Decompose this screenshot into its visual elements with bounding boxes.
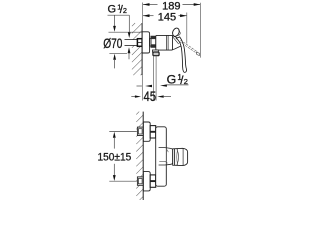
- body front edge over cone: [165, 148, 167, 165]
- dimension 145: [143, 11, 187, 23]
- label G 1/2 (top left, inlet thread): [108, 2, 130, 16]
- wall hatching (lower view): [136, 112, 143, 200]
- wall hatching (upper view): [132, 23, 142, 75]
- svg-text:2: 2: [123, 6, 127, 15]
- lever knob (top view): [171, 27, 181, 38]
- handle knob (front view): [173, 148, 188, 165]
- outlet extension line left: [153, 56, 155, 101]
- O70 bottom extension line (flange bottom): [109, 53, 127, 55]
- phantom lever tip: [196, 52, 199, 55]
- body ring groove: [167, 35, 169, 50]
- knob lens arc right: [177, 149, 179, 165]
- dimension 45: [131, 89, 171, 104]
- cartridge cap dome: [173, 36, 182, 50]
- mixer body (front view): [156, 127, 167, 186]
- G1/2 leader arrow 1 (doubles as O70 top arrow): [113, 15, 116, 32]
- knob base ring: [174, 149, 176, 166]
- knob lens arc left: [176, 149, 179, 165]
- lever arm: [176, 37, 186, 72]
- concealed elbow bottom: [137, 177, 143, 185]
- svg-text:G: G: [108, 4, 117, 16]
- O70 bottom arrow: [113, 54, 116, 69]
- leader arrow at wall face (outlet row): [137, 85, 153, 87]
- union nut in wall: [137, 39, 142, 47]
- svg-text:G: G: [167, 73, 177, 87]
- bottom union hex nut: [150, 175, 156, 187]
- extension line to lever tip (189): [199, 3, 201, 58]
- shower outlet flange (top view): [152, 50, 158, 52]
- dimension 189: [143, 0, 200, 12]
- concealed elbow top: [137, 127, 143, 135]
- phantom lever outline lower edge (alternate position): [179, 42, 196, 54]
- wall face line (lower view): [142, 112, 144, 200]
- pipe bottom arrow (points up at pipe): [128, 47, 131, 59]
- cone inner detail lower: [159, 161, 167, 163]
- wall flange / escutcheon O70 (side): [142, 32, 149, 53]
- shower outlet nut: [153, 52, 159, 56]
- extension line to lever front (145): [186, 13, 188, 44]
- mixer body (top view): [156, 35, 173, 50]
- supply pipe in wall: [125, 40, 138, 46]
- top union escutcheon: [143, 122, 150, 141]
- hex union nut: [151, 36, 156, 48]
- top union hex nut: [150, 126, 156, 138]
- wall face extension line below, to 45 dim: [141, 75, 143, 100]
- svg-text:145: 145: [158, 11, 176, 23]
- G1/2 leader arrow 2 (points at supply pipe): [128, 15, 131, 38]
- knob cap edge: [182, 148, 184, 165]
- svg-text:150±15: 150±15: [98, 152, 132, 164]
- bottom union escutcheon: [143, 172, 150, 191]
- dimension 150 +/- 15: [98, 132, 137, 182]
- svg-text:2: 2: [184, 77, 188, 86]
- wall face extension line above: [142, 3, 144, 24]
- union collar: [150, 38, 151, 46]
- valve escutcheon cone: [159, 148, 173, 165]
- label G 1/2 (outlet): [160, 73, 189, 88]
- cone inner detail upper: [167, 150, 168, 152]
- svg-text:45: 45: [144, 89, 157, 104]
- O70 top extension line (flange top): [109, 31, 147, 33]
- outlet extension line right: [155, 56, 157, 101]
- svg-text:Ø70: Ø70: [103, 36, 123, 51]
- phantom lever outline upper edge: [181, 40, 198, 52]
- wall face line (upper view): [141, 23, 143, 75]
